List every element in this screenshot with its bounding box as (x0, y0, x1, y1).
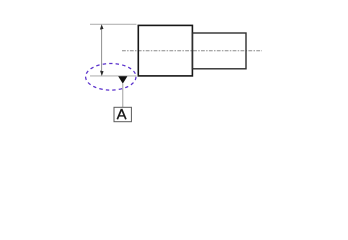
datum triangle (118, 76, 127, 83)
datum frame box (114, 107, 131, 121)
bottom extension line (90, 75, 137, 77)
datum label A (117, 109, 126, 119)
small shaft rectangle (192, 33, 246, 69)
centerline (122, 50, 262, 52)
large cylinder body rectangle (138, 25, 192, 76)
highlight ellipse (86, 64, 136, 91)
dimension arrow down (100, 71, 104, 76)
dimension arrow up (100, 24, 104, 29)
top extension line (90, 23, 137, 25)
datum leader line (122, 84, 124, 108)
dimension line (101, 26, 103, 75)
